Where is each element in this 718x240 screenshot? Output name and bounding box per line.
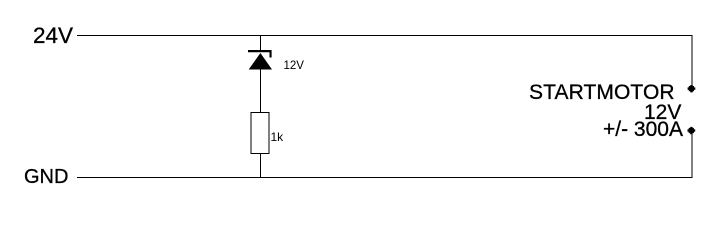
startmotor label <box>529 82 675 103</box>
terminal dot top (startmotor +) <box>688 85 696 92</box>
resistor R1 body <box>251 113 269 154</box>
zener value 12V label <box>284 61 304 73</box>
startmotor 12V label <box>644 102 681 123</box>
zener diode D1 anode triangle <box>249 53 272 70</box>
wire: resistor to GND rail <box>260 154 262 178</box>
startmotor +/- 300A label <box>603 119 683 140</box>
wire: 24V top rail <box>77 35 693 37</box>
wire: right vertical upper segment <box>691 36 693 87</box>
resistor value 1k label <box>271 131 284 143</box>
wire: branch from top rail to zener cathode <box>260 36 262 53</box>
terminal dot bottom (startmotor -) <box>688 127 696 134</box>
node 24V label <box>33 25 73 48</box>
node GND label <box>24 167 68 187</box>
wire: right vertical lower segment <box>691 133 693 178</box>
zener diode D1 cathode bar with hook <box>248 50 272 58</box>
wire: zener anode to resistor <box>260 69 262 112</box>
wire: GND bottom rail <box>77 177 693 179</box>
